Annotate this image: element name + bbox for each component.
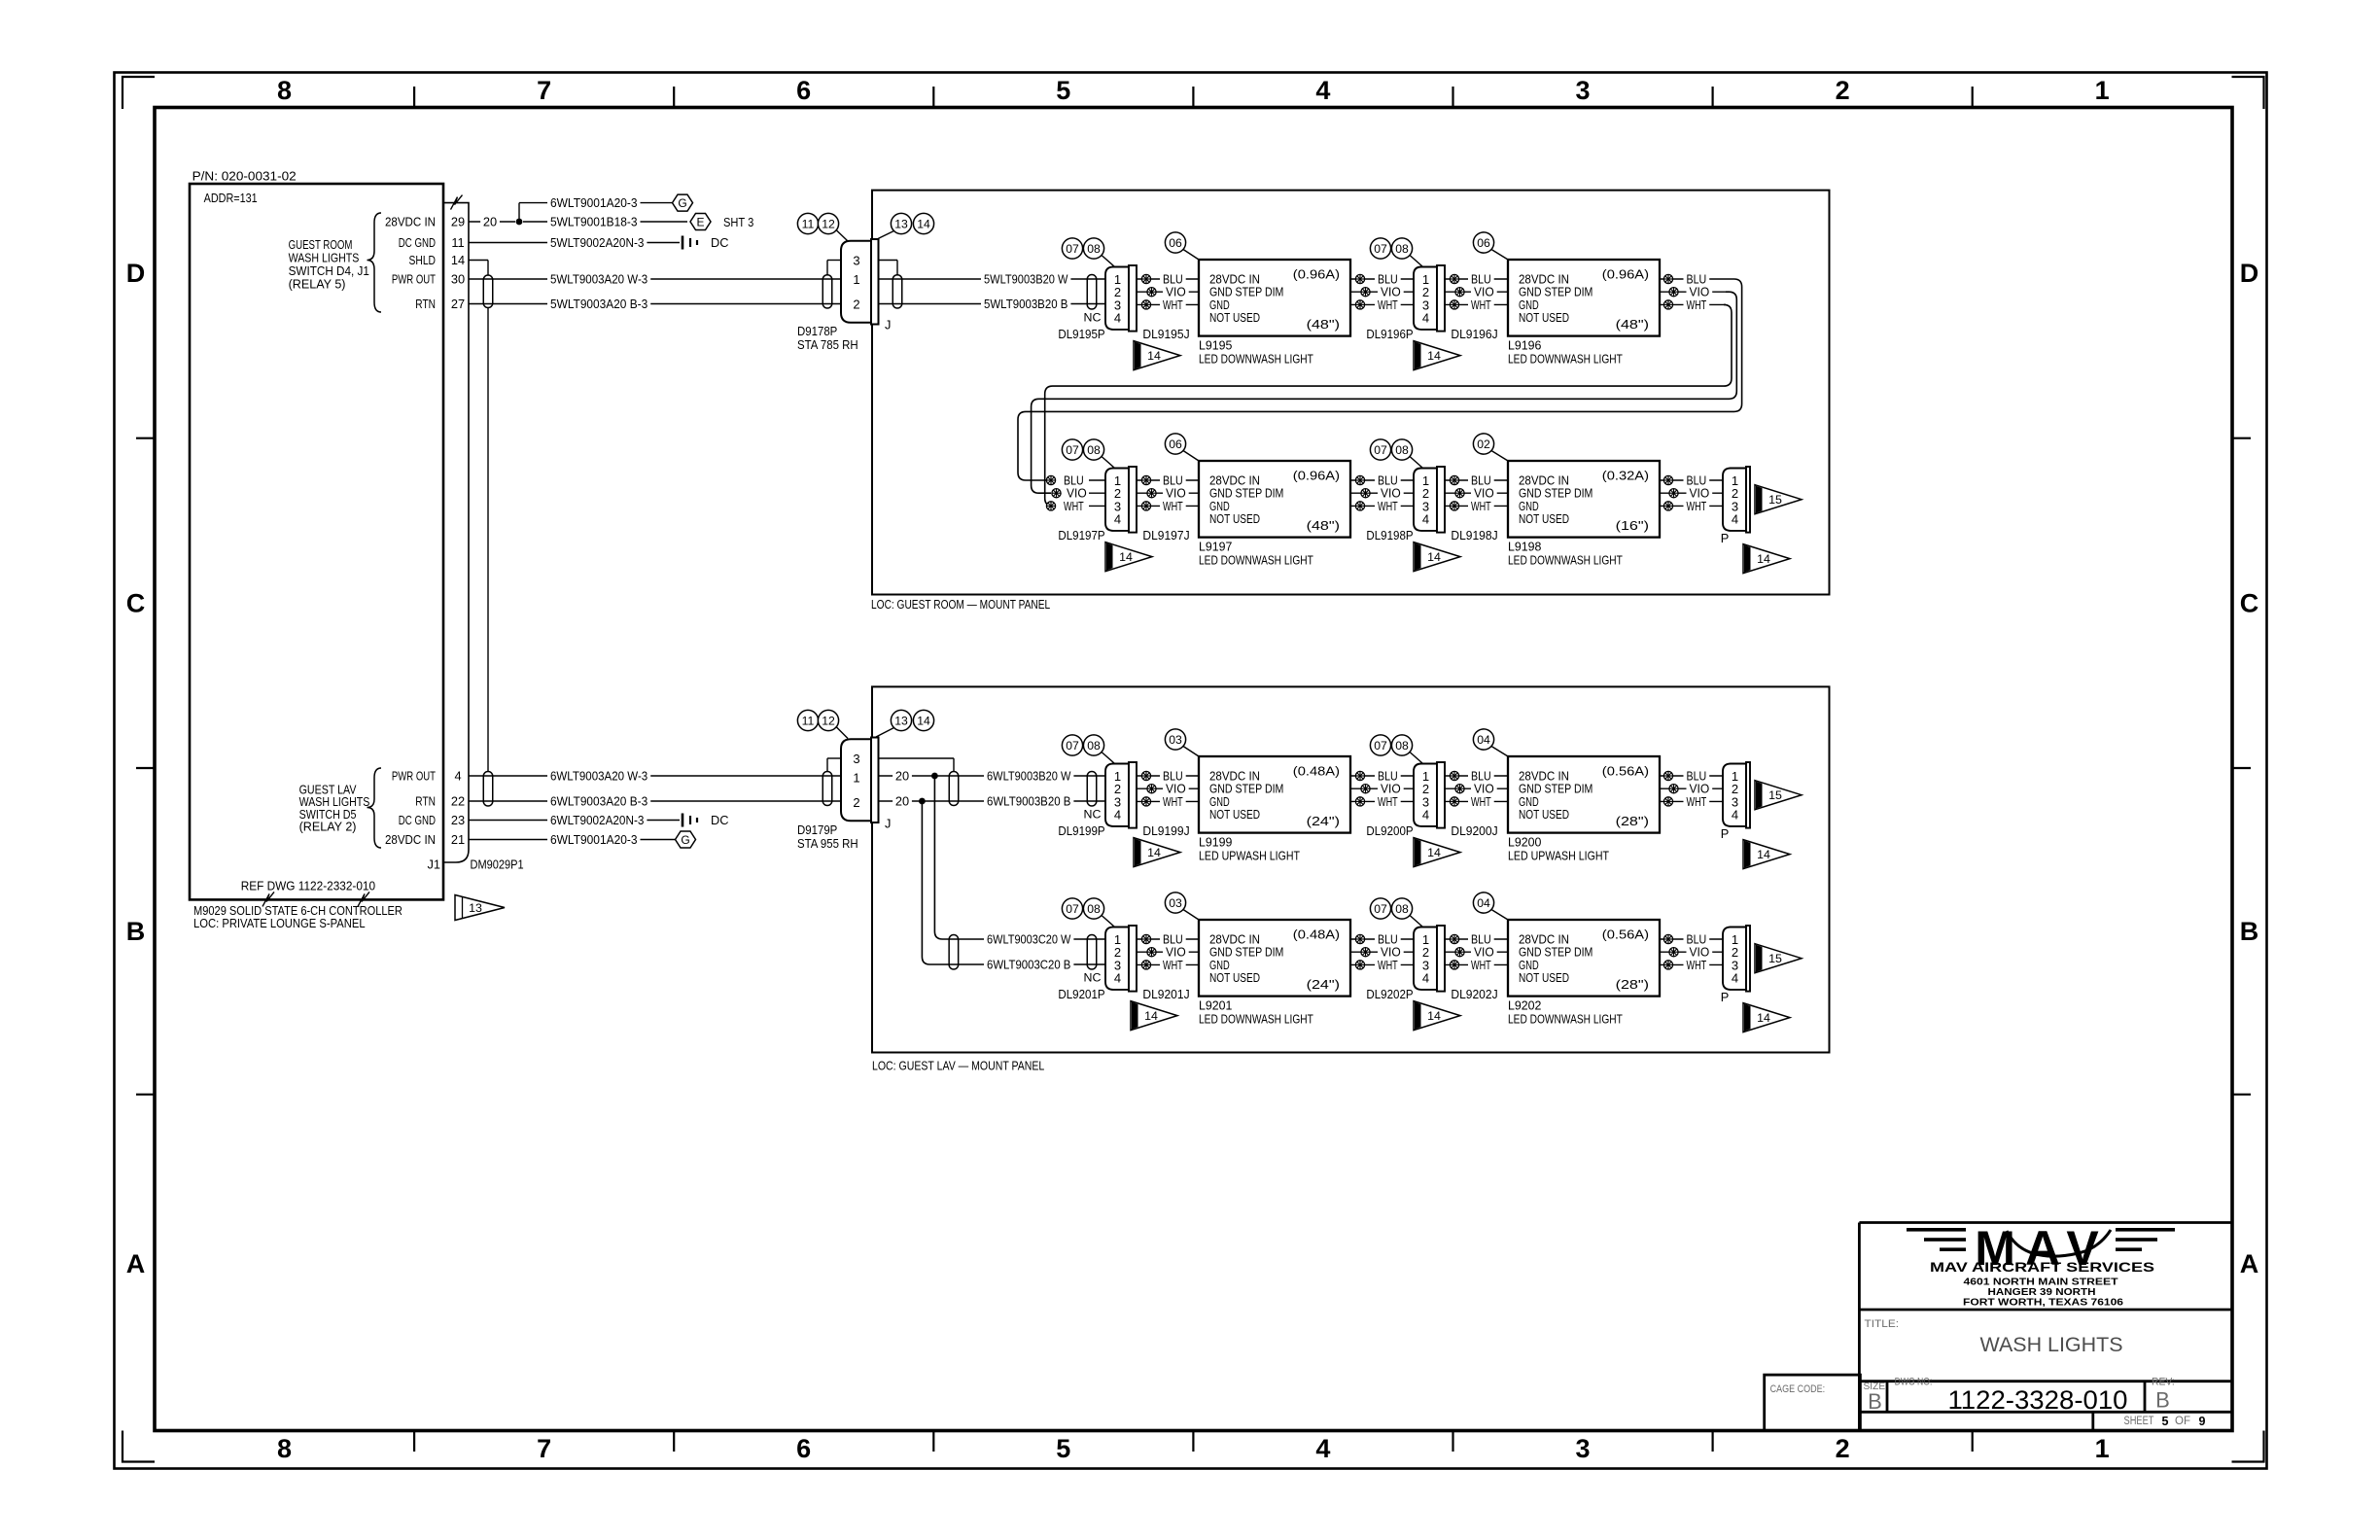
svg-text:DL9196J: DL9196J	[1451, 327, 1497, 341]
svg-text:WHT: WHT	[1471, 958, 1491, 972]
svg-text:13: 13	[469, 901, 482, 915]
svg-text:DC: DC	[711, 813, 728, 827]
splices L9201 output	[1355, 934, 1370, 969]
svg-text:3: 3	[1575, 76, 1590, 105]
svg-text:STA 955 RH: STA 955 RH	[797, 836, 858, 851]
wire BLU loop to second row	[1018, 279, 1742, 480]
svg-text:07: 07	[1374, 443, 1387, 457]
zone letters right	[2240, 259, 2259, 1278]
label L9198	[1508, 540, 1623, 568]
balloon 12 lav	[818, 710, 848, 738]
svg-text:28VDC IN: 28VDC IN	[385, 215, 436, 229]
LED light unit L9199	[1199, 756, 1350, 833]
svg-text:12: 12	[822, 218, 835, 231]
svg-text:1: 1	[2095, 76, 2110, 105]
svg-text:14: 14	[1427, 550, 1441, 564]
wire 5WLT9003B20 W	[879, 271, 1106, 287]
svg-text:L9196: L9196	[1508, 338, 1541, 353]
svg-text:DL9199J: DL9199J	[1142, 823, 1189, 838]
labels DL9202P DL9202J	[1366, 987, 1497, 1001]
wires L9196 output	[1660, 279, 1726, 304]
twisted pair capsule left of D9179P	[822, 772, 832, 806]
svg-text:30: 30	[451, 272, 465, 287]
svg-text:08: 08	[1395, 443, 1409, 457]
svg-text:A: A	[126, 1249, 146, 1278]
labels DL9196P DL9196J	[1366, 327, 1497, 341]
svg-text:1122-3328-010: 1122-3328-010	[1948, 1385, 2128, 1415]
svg-text:4: 4	[454, 769, 461, 784]
label L9197	[1199, 540, 1313, 568]
svg-text:WHT: WHT	[1687, 958, 1707, 972]
svg-text:(48"): (48")	[1307, 317, 1340, 332]
svg-text:NOT USED: NOT USED	[1209, 511, 1260, 526]
svg-text:WHT: WHT	[1378, 499, 1398, 513]
svg-text:LED DOWNWASH LIGHT: LED DOWNWASH LIGHT	[1508, 1012, 1623, 1027]
svg-text:1: 1	[853, 272, 859, 287]
svg-text:LED DOWNWASH LIGHT: LED DOWNWASH LIGHT	[1199, 1012, 1313, 1027]
svg-text:15: 15	[1768, 788, 1782, 802]
svg-text:P: P	[1721, 990, 1730, 1004]
svg-text:LED DOWNWASH LIGHT: LED DOWNWASH LIGHT	[1199, 352, 1313, 367]
wires DL9202J to LED	[1445, 939, 1508, 964]
svg-text:4: 4	[1114, 311, 1121, 326]
svg-text:DC GND: DC GND	[399, 235, 436, 250]
color labels L9197 output	[1375, 472, 1404, 513]
svg-text:LOC: GUEST ROOM — MOUNT PANEL: LOC: GUEST ROOM — MOUNT PANEL	[871, 597, 1050, 612]
junction node W branch	[931, 773, 938, 780]
wires DL9195J to LED	[1137, 279, 1199, 304]
svg-text:23: 23	[451, 813, 465, 827]
balloon 08 DL9199P	[1083, 735, 1114, 763]
svg-text:P: P	[1721, 826, 1730, 841]
svg-text:D: D	[126, 259, 146, 288]
connector P lav downwash	[1723, 926, 1750, 992]
color labels second row input	[1061, 472, 1090, 513]
splices DL9195J	[1141, 274, 1156, 309]
corner trim mark top-right	[2232, 77, 2264, 109]
svg-text:5: 5	[1056, 76, 1070, 105]
svg-text:2: 2	[1836, 76, 1850, 105]
svg-text:B: B	[2240, 917, 2259, 946]
wire 28VDC IN pin 21	[469, 832, 675, 848]
svg-text:WHT: WHT	[1471, 297, 1491, 312]
svg-text:WHT: WHT	[1064, 499, 1084, 513]
wires DL9196J to LED	[1445, 279, 1508, 304]
svg-text:DL9200J: DL9200J	[1451, 823, 1497, 838]
svg-text:8: 8	[277, 1434, 292, 1463]
hex flag E sheet 3	[690, 214, 753, 230]
splices L9197 output	[1355, 475, 1370, 510]
wire color labels DL9200J	[1468, 768, 1497, 809]
ref dwg note	[241, 879, 375, 893]
connector P guest room	[1723, 467, 1750, 533]
wire color labels DL9201J	[1160, 931, 1189, 972]
wire DC GND pin 11	[469, 235, 680, 251]
svg-text:13: 13	[894, 715, 908, 728]
svg-text:(28"): (28")	[1616, 814, 1649, 828]
controller M9029 box	[190, 184, 443, 899]
relay 2 pin function labels	[385, 769, 436, 848]
break mark on J1 strip top	[451, 195, 463, 210]
balloon 03 L9201	[1165, 892, 1199, 920]
svg-text:(24"): (24")	[1307, 814, 1340, 828]
balloon 06 L9197	[1165, 434, 1199, 461]
svg-text:WHT: WHT	[1378, 297, 1398, 312]
svg-text:08: 08	[1087, 902, 1101, 916]
twisted pair capsule left of D9178P	[822, 275, 832, 308]
svg-text:22: 22	[451, 794, 465, 809]
wire WHT loop to second row	[1045, 304, 1732, 506]
svg-text:04: 04	[1477, 733, 1490, 747]
svg-text:2: 2	[853, 795, 859, 810]
splices DL9197J	[1141, 475, 1156, 510]
svg-text:7: 7	[537, 76, 551, 105]
svg-text:(0.96A): (0.96A)	[1293, 267, 1340, 282]
balloon 06 L9195	[1165, 232, 1199, 260]
svg-text:WHT: WHT	[1163, 499, 1183, 513]
svg-text:06: 06	[1477, 236, 1490, 250]
shield capsule relay5 pair	[483, 275, 493, 308]
wire color labels DL9197J	[1160, 472, 1189, 513]
wires DL9201J to LED	[1137, 939, 1199, 964]
svg-text:4: 4	[1114, 512, 1121, 527]
balloon 06 L9196	[1473, 232, 1508, 260]
svg-text:DL9201P: DL9201P	[1058, 987, 1104, 1001]
svg-text:(RELAY 5): (RELAY 5)	[289, 277, 346, 292]
balloon 08 DL9197P	[1083, 439, 1114, 468]
flag 14 DL9197J	[1105, 542, 1152, 572]
svg-text:08: 08	[1395, 242, 1409, 256]
svg-text:WASH LIGHTS: WASH LIGHTS	[1980, 1334, 2123, 1356]
svg-text:06: 06	[1169, 437, 1182, 451]
wires L9199 output	[1350, 776, 1414, 801]
wires L9201 output	[1350, 939, 1414, 964]
svg-text:NOT USED: NOT USED	[1519, 511, 1569, 526]
drawing title WASH LIGHTS	[1980, 1334, 2123, 1356]
svg-text:B: B	[1868, 1389, 1882, 1414]
connector DL9202P	[1414, 926, 1445, 992]
svg-text:20: 20	[895, 769, 909, 784]
LED light unit L9196	[1508, 260, 1660, 336]
svg-text:WHT: WHT	[1687, 794, 1707, 809]
controller name note	[193, 903, 402, 918]
color labels L9200 output	[1684, 768, 1713, 809]
guest room mount panel boundary	[872, 191, 1830, 595]
svg-text:DL9199P: DL9199P	[1058, 823, 1104, 838]
svg-text:C: C	[2240, 589, 2259, 618]
svg-text:WHT: WHT	[1163, 794, 1183, 809]
relay 5 pin function labels	[385, 215, 436, 312]
svg-text:NOT USED: NOT USED	[1209, 970, 1260, 985]
label NC	[1084, 808, 1102, 822]
svg-text:6WLT9003A20 B-3: 6WLT9003A20 B-3	[550, 794, 647, 809]
connector D9179P	[841, 738, 879, 823]
wire PWR OUT pin 30	[469, 271, 841, 287]
svg-text:D9179P: D9179P	[797, 822, 837, 837]
svg-text:08: 08	[1087, 443, 1101, 457]
brace guest lav switch group	[367, 768, 382, 848]
svg-text:07: 07	[1374, 902, 1387, 916]
splices L9199 output	[1355, 771, 1370, 806]
svg-text:NOT USED: NOT USED	[1519, 310, 1569, 325]
svg-text:14: 14	[1119, 550, 1133, 564]
twisted pair capsule DL9201P	[949, 935, 959, 970]
svg-text:5WLT9003B20 B: 5WLT9003B20 B	[984, 297, 1067, 311]
svg-text:DL9197J: DL9197J	[1142, 528, 1189, 542]
svg-text:DC GND: DC GND	[399, 813, 436, 827]
svg-text:14: 14	[1427, 349, 1441, 363]
balloon 12 top	[818, 213, 848, 241]
svg-text:7: 7	[537, 1434, 551, 1463]
svg-text:LOC: PRIVATE LOUNGE S-PANEL: LOC: PRIVATE LOUNGE S-PANEL	[193, 916, 366, 930]
svg-text:28VDC IN: 28VDC IN	[385, 832, 436, 847]
twisted pair capsule right of D9178P	[892, 275, 902, 308]
title label	[1865, 1318, 1900, 1330]
wire PWR OUT pin 4	[469, 768, 841, 784]
controller J1 connector strip	[443, 203, 469, 862]
svg-text:L9199: L9199	[1199, 835, 1232, 850]
svg-text:03: 03	[1169, 896, 1182, 910]
svg-text:27: 27	[451, 297, 465, 311]
balloon 07 DL9201P	[1062, 898, 1082, 919]
label L9196	[1508, 338, 1623, 367]
twisted pair capsule DL9199P	[1087, 772, 1097, 807]
svg-text:5WLT9001B18-3: 5WLT9001B18-3	[550, 215, 638, 229]
svg-text:4: 4	[1114, 971, 1121, 986]
label L9201	[1199, 998, 1313, 1027]
flag 14 DL9201J	[1131, 1001, 1177, 1031]
wire RTN pin 27	[469, 297, 841, 312]
wire color labels DL9196J	[1468, 271, 1497, 312]
label L9195	[1199, 338, 1313, 367]
svg-text:(RELAY 2): (RELAY 2)	[299, 820, 357, 834]
svg-text:D9178P: D9178P	[797, 324, 837, 338]
flag 15 lav downwash	[1755, 944, 1802, 973]
svg-text:D: D	[2240, 259, 2259, 288]
svg-text:6: 6	[796, 76, 811, 105]
svg-text:MAV AIRCRAFT SERVICES: MAV AIRCRAFT SERVICES	[1930, 1260, 2154, 1275]
rev field	[2152, 1377, 2175, 1413]
color labels L9202 output	[1684, 931, 1713, 972]
svg-text:WHT: WHT	[1687, 297, 1707, 312]
svg-text:4601 NORTH MAIN STREET: 4601 NORTH MAIN STREET	[1964, 1277, 2118, 1288]
svg-text:4: 4	[1422, 512, 1429, 527]
splices DL9200J	[1450, 771, 1464, 806]
svg-text:03: 03	[1169, 733, 1182, 747]
svg-text:6WLT9001A20-3: 6WLT9001A20-3	[550, 832, 638, 847]
svg-text:DWG NO:: DWG NO:	[1895, 1377, 1933, 1388]
svg-text:A: A	[2240, 1249, 2259, 1278]
svg-text:11: 11	[802, 218, 815, 231]
wire color labels DL9199J	[1160, 768, 1189, 809]
svg-text:21: 21	[451, 832, 465, 847]
svg-text:DL9195J: DL9195J	[1142, 327, 1189, 341]
svg-text:11: 11	[802, 715, 815, 728]
svg-text:13: 13	[894, 218, 908, 231]
svg-text:5WLT9003B20 W: 5WLT9003B20 W	[984, 272, 1068, 287]
svg-text:4: 4	[1732, 808, 1738, 822]
svg-text:OF: OF	[2175, 1416, 2190, 1427]
svg-text:DL9198P: DL9198P	[1366, 528, 1413, 542]
wire color labels DL9195J	[1160, 271, 1189, 312]
splices DL9202J	[1450, 934, 1464, 969]
drawing inner border frame	[155, 108, 2232, 1431]
wire DC GND pin 23	[469, 813, 680, 828]
svg-text:LOC: GUEST LAV — MOUNT PANEL: LOC: GUEST LAV — MOUNT PANEL	[872, 1059, 1044, 1073]
shield drain vertical run	[487, 308, 489, 772]
svg-text:4: 4	[1422, 971, 1429, 986]
balloon 07 DL9198P	[1370, 439, 1390, 460]
svg-text:5WLT9002A20N-3: 5WLT9002A20N-3	[550, 235, 644, 250]
LED light unit L9195	[1199, 260, 1350, 336]
wires second row input to DL9197P	[1089, 480, 1105, 506]
svg-text:08: 08	[1087, 242, 1101, 256]
LED light unit L9202	[1508, 920, 1660, 997]
svg-text:14: 14	[1757, 1011, 1770, 1025]
svg-text:6WLT9001A20-3: 6WLT9001A20-3	[550, 195, 638, 210]
balloon 07 DL9202P	[1370, 898, 1390, 919]
svg-text:6WLT9003B20 B: 6WLT9003B20 B	[987, 794, 1070, 809]
svg-text:5: 5	[2162, 1415, 2169, 1428]
connector DL9201P	[1105, 926, 1137, 992]
svg-text:07: 07	[1066, 443, 1079, 457]
svg-text:WHT: WHT	[1471, 499, 1491, 513]
balloon 07 DL9197P	[1062, 439, 1082, 460]
wires L9202 output	[1660, 939, 1723, 964]
svg-text:20: 20	[895, 794, 909, 809]
svg-text:(24"): (24")	[1307, 977, 1340, 992]
svg-text:L9197: L9197	[1199, 540, 1232, 554]
svg-text:07: 07	[1066, 739, 1079, 752]
svg-text:DL9198J: DL9198J	[1451, 528, 1497, 542]
svg-text:WHT: WHT	[1471, 794, 1491, 809]
LED light unit L9198	[1508, 461, 1660, 538]
company address	[1963, 1277, 2124, 1309]
ground symbol DC lav	[682, 813, 728, 827]
svg-text:DM9029P1: DM9029P1	[471, 857, 524, 872]
wires L9200 output	[1660, 776, 1723, 801]
splices L9200 output	[1663, 771, 1678, 806]
wires DL9199J to LED	[1137, 776, 1199, 801]
splices L9202 output	[1663, 934, 1678, 969]
guest lav mount panel location label	[872, 1059, 1044, 1073]
balloon 07 DL9196P	[1370, 238, 1390, 259]
corner trim mark bottom-left	[122, 1431, 155, 1462]
svg-text:(0.56A): (0.56A)	[1602, 927, 1649, 942]
balloon 02 L9198	[1473, 434, 1508, 461]
MAV logo	[1907, 1221, 2175, 1276]
flag 15 guest room	[1755, 485, 1802, 514]
splices L9195 output	[1355, 274, 1370, 309]
balloon 08 DL9196P	[1391, 238, 1422, 266]
balloon 04 L9200	[1473, 729, 1508, 756]
svg-text:14: 14	[1427, 1009, 1441, 1023]
svg-text:6WLT9002A20N-3: 6WLT9002A20N-3	[550, 813, 644, 827]
balloon 14 top	[913, 213, 933, 233]
balloon 08 DL9200P	[1391, 735, 1422, 763]
flag 14 DL9196J	[1414, 341, 1460, 370]
color labels L9198 output	[1684, 472, 1713, 513]
svg-text:4: 4	[1315, 76, 1330, 105]
svg-text:4: 4	[1114, 808, 1121, 822]
svg-text:RTN: RTN	[415, 794, 436, 809]
label P guest room	[1721, 531, 1730, 545]
wire RTN pin 22	[469, 793, 841, 809]
svg-text:29: 29	[451, 215, 465, 229]
svg-text:J: J	[885, 318, 891, 332]
twisted pair capsule before DL9201P	[1087, 935, 1097, 970]
svg-text:08: 08	[1087, 739, 1101, 752]
wires L9198 output	[1660, 480, 1723, 506]
svg-text:15: 15	[1768, 952, 1782, 965]
balloon 03 L9199	[1165, 729, 1199, 756]
corner trim mark bottom-right	[2232, 1431, 2264, 1462]
svg-text:PWR OUT: PWR OUT	[392, 769, 436, 784]
flag 15 lav upwash	[1755, 781, 1802, 810]
labels DL9201P DL9201J	[1058, 987, 1189, 1001]
svg-text:12: 12	[822, 715, 835, 728]
labels DL9195P DL9195J	[1058, 327, 1189, 341]
svg-text:DL9202P: DL9202P	[1366, 987, 1413, 1001]
svg-text:5WLT9003A20 W-3: 5WLT9003A20 W-3	[550, 272, 647, 287]
svg-text:2: 2	[853, 297, 859, 312]
flag 14 DL9200J	[1414, 838, 1460, 867]
svg-text:DL9196P: DL9196P	[1366, 327, 1413, 341]
color labels L9195 output	[1375, 271, 1404, 312]
flag 14 DL9199J	[1134, 838, 1180, 867]
flag 14 lav upwash	[1743, 840, 1790, 869]
flag 14 lav downwash	[1743, 1003, 1790, 1032]
svg-text:DL9202J: DL9202J	[1451, 987, 1497, 1001]
svg-text:J1: J1	[427, 857, 440, 872]
svg-text:TITLE:: TITLE:	[1865, 1318, 1900, 1330]
svg-text:SHT 3: SHT 3	[723, 215, 753, 229]
svg-text:(28"): (28")	[1616, 977, 1649, 992]
label NC	[1084, 311, 1102, 325]
svg-text:L9200: L9200	[1508, 835, 1541, 850]
svg-text:DL9200P: DL9200P	[1366, 823, 1413, 838]
brace guest room switch group	[367, 213, 382, 312]
label J1	[427, 857, 440, 872]
guest room mount panel location label	[871, 597, 1050, 612]
svg-text:4: 4	[1732, 971, 1738, 986]
svg-text:L9198: L9198	[1508, 540, 1541, 554]
junction node pin 29 wire	[516, 219, 523, 226]
svg-text:14: 14	[1427, 846, 1441, 859]
hex flag G top	[673, 194, 693, 211]
color labels L9199 output	[1375, 768, 1404, 809]
balloon 13 lav	[876, 710, 912, 737]
guest lav switch description	[299, 783, 370, 834]
svg-text:14: 14	[917, 715, 930, 728]
svg-text:LED DOWNWASH LIGHT: LED DOWNWASH LIGHT	[1508, 352, 1623, 367]
connector P lav upwash	[1723, 762, 1750, 828]
svg-text:FORT WORTH, TEXAS 76106: FORT WORTH, TEXAS 76106	[1963, 1298, 2124, 1309]
svg-text:07: 07	[1374, 242, 1387, 256]
svg-text:(0.48A): (0.48A)	[1293, 764, 1340, 779]
balloon 08 DL9195P	[1083, 238, 1114, 266]
connector DL9200P	[1414, 762, 1445, 828]
svg-text:6WLT9003C20 B: 6WLT9003C20 B	[987, 958, 1070, 972]
wire 6WLT9003B20 B	[879, 793, 1106, 809]
size field	[1864, 1381, 1886, 1414]
svg-text:G: G	[681, 833, 689, 847]
balloon 08 DL9202P	[1391, 898, 1422, 927]
flag 14 DL9202J	[1414, 1001, 1460, 1031]
svg-text:14: 14	[1147, 846, 1161, 859]
svg-text:L9195: L9195	[1199, 338, 1232, 353]
cage code box	[1765, 1375, 1861, 1430]
